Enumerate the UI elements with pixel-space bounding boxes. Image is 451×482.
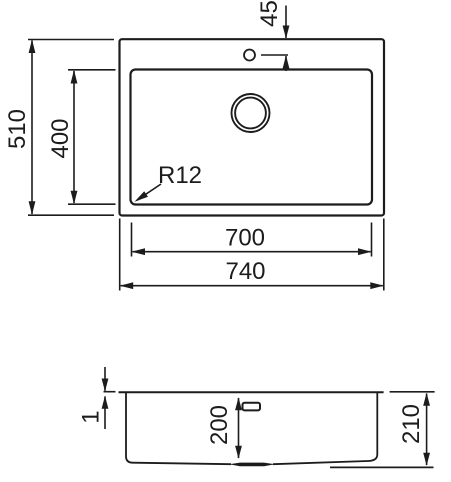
dimension 45: up arrowhead at hole centerline	[283, 55, 290, 68]
svg-text:400: 400	[47, 118, 74, 158]
drain outer circle	[232, 94, 270, 132]
dimension 210: bottom extension line	[330, 466, 434, 468]
svg-text:740: 740	[225, 258, 265, 285]
dimension 200: vertical dimension line	[238, 398, 240, 458]
svg-text:R12: R12	[158, 162, 202, 189]
dimension 740: horizontal dimension line	[121, 285, 383, 287]
dimension 45: upper line segment	[285, 6, 287, 39]
dimension 510: up arrowhead	[29, 39, 36, 53]
dimension 400: bottom extension line	[68, 203, 116, 205]
dimension 740: right extension line	[383, 219, 385, 291]
svg-text:510: 510	[4, 109, 31, 149]
dimension 210: vertical dimension line	[426, 394, 428, 466]
section view rim top line	[119, 391, 384, 393]
dimension 1: lower line segment	[104, 396, 106, 429]
sink bowl inner rectangle (top view, 700x400)	[131, 70, 373, 205]
dimension 45: lower line segment	[285, 56, 287, 71]
svg-text:45: 45	[256, 0, 283, 27]
dimension 510: top extension line	[28, 39, 114, 41]
section view drain boss	[229, 463, 275, 467]
svg-text:700: 700	[225, 225, 265, 252]
sink outer rim rectangle (top view, 740x510)	[120, 39, 385, 215]
R12 leader arrowhead	[135, 191, 149, 202]
dimension 1: upper line segment	[104, 367, 106, 391]
dimension 700: right extension line	[371, 223, 373, 257]
svg-text:210: 210	[398, 404, 425, 444]
dimension 740: left extension line	[119, 219, 121, 291]
dimension 1: down arrowhead	[102, 379, 109, 392]
dimension 700: horizontal dimension line	[133, 251, 371, 253]
dimension 210: down arrowhead	[423, 453, 430, 466]
dimension 45: down arrowhead at rim top edge	[283, 26, 290, 39]
dimension 210: top extension line	[390, 391, 435, 393]
dimension 400: up arrowhead	[71, 70, 78, 84]
dimension 400: top extension line	[68, 69, 116, 71]
dimension 510: bottom extension line	[28, 214, 114, 216]
dimension 510: vertical dimension line	[31, 41, 33, 215]
dimension 200: down arrowhead	[235, 446, 242, 459]
dimension 45: extension line from faucet hole center	[261, 54, 288, 56]
dimension 740: left arrowhead	[120, 282, 134, 289]
R12 leader line	[137, 184, 161, 200]
dimension 1: up arrowhead	[102, 396, 109, 409]
dimension 510: down arrowhead	[29, 201, 36, 215]
svg-text:200: 200	[206, 405, 233, 445]
dimension 700: left extension line	[131, 223, 133, 257]
section view overflow opening	[243, 403, 261, 411]
dimension 700: left arrowhead	[131, 248, 145, 255]
drain inner circle	[235, 98, 266, 129]
dimension 400: down arrowhead	[71, 191, 78, 205]
section view bowl outline	[126, 393, 377, 464]
dimension 200: up arrowhead	[235, 397, 242, 410]
dimension 400: vertical dimension line	[73, 71, 75, 203]
faucet hole	[244, 50, 255, 61]
dimension 700: right arrowhead	[358, 248, 372, 255]
dimension 740: right arrowhead	[370, 282, 384, 289]
svg-text:1: 1	[78, 410, 105, 423]
dimension 210: up arrowhead	[423, 393, 430, 406]
dimension 1: upper tick extension	[104, 391, 116, 393]
